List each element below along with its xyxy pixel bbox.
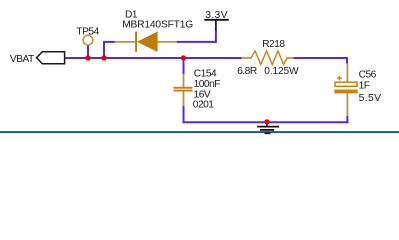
svg-text:R218: R218: [262, 39, 285, 50]
svg-text:VBAT: VBAT: [10, 54, 34, 65]
svg-text:100nF: 100nF: [194, 79, 221, 90]
svg-text:TP54: TP54: [76, 27, 99, 38]
svg-text:6.8R: 6.8R: [237, 66, 257, 77]
svg-text:0.125W: 0.125W: [264, 66, 299, 77]
svg-text:C154: C154: [194, 68, 217, 79]
svg-text:1F: 1F: [359, 81, 370, 92]
svg-text:MBR140SFT1G: MBR140SFT1G: [122, 19, 193, 30]
svg-text:0201: 0201: [193, 100, 214, 111]
svg-text:5.5V: 5.5V: [359, 93, 382, 104]
svg-text:3.3V: 3.3V: [205, 10, 228, 21]
svg-text:C56: C56: [359, 69, 377, 80]
